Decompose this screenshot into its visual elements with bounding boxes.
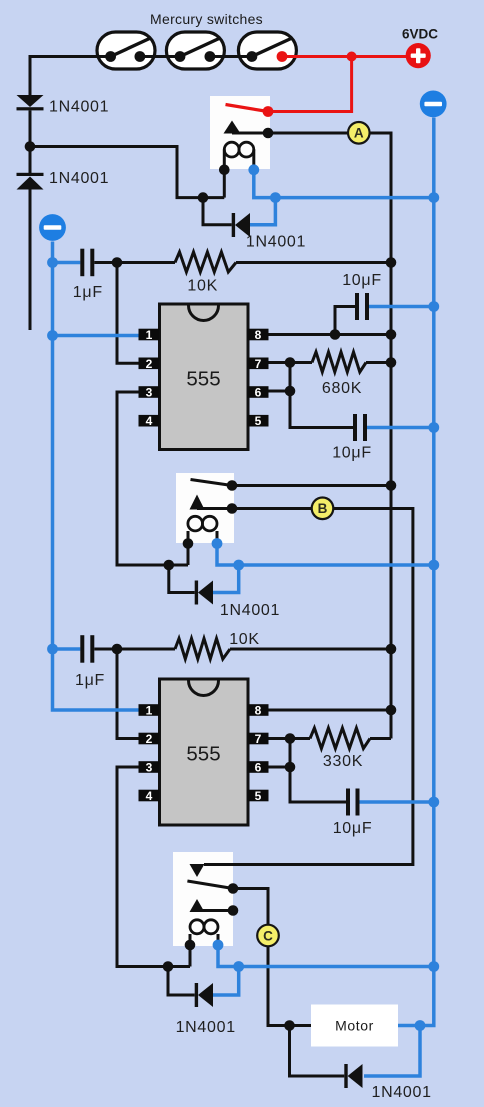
relay K1 switch lever (red) xyxy=(226,105,269,112)
svg-text:1N4001: 1N4001 xyxy=(176,1019,236,1036)
relay K2 body xyxy=(176,473,234,543)
wire: 555 U1 pin8 row xyxy=(248,333,391,336)
wire: relay K2 coil return to bus (blue) xyxy=(217,544,434,566)
svg-text:8: 8 xyxy=(255,704,262,718)
svg-text:1: 1 xyxy=(146,328,153,342)
wire: relay K2 switch contact to vertical bus xyxy=(232,484,391,487)
resistor R4 330K zigzag xyxy=(310,728,370,749)
terminal minus (top right) xyxy=(420,91,447,118)
mercury switch S3 xyxy=(235,32,299,69)
relay K3 switch lever xyxy=(187,881,233,889)
relay K3 coil xyxy=(190,920,218,934)
wire: R1 to vertical bus xyxy=(236,261,391,264)
svg-text:1μF: 1μF xyxy=(75,672,105,689)
svg-text:330K: 330K xyxy=(323,753,363,770)
svg-text:5: 5 xyxy=(255,789,262,803)
wire: left rail between D1 and D2 xyxy=(29,111,32,174)
mercury switch S2 xyxy=(163,32,227,69)
wire: branch from left rail to relay K1 coil xyxy=(30,147,224,198)
svg-text:4: 4 xyxy=(146,414,153,428)
capacitor C4 1uF xyxy=(80,635,94,663)
diode D3 1N4001 (relay K1 flyback) xyxy=(232,213,250,237)
wire: R2 to vertical bus xyxy=(366,361,391,364)
svg-text:555: 555 xyxy=(186,368,220,391)
wire: blue lead to capacitor C1 xyxy=(53,261,81,265)
svg-text:3: 3 xyxy=(146,761,153,775)
IC U2 pin 8 xyxy=(248,704,269,718)
wire: blue branch to diode D3 cathode xyxy=(250,198,275,225)
motor M1 body xyxy=(311,1005,398,1047)
wire: C1 to R1 lead xyxy=(94,261,175,264)
IC U2 pin 4 xyxy=(139,789,160,803)
resistor R3 10K zigzag xyxy=(175,639,230,660)
diode D2 1N4001 (left rail lower) xyxy=(17,173,44,190)
svg-text:3: 3 xyxy=(146,386,153,400)
wire: relay K2 coil left lead xyxy=(187,531,190,565)
junction dots black xyxy=(25,128,397,1031)
svg-text:Motor: Motor xyxy=(335,1018,374,1034)
svg-text:1N4001: 1N4001 xyxy=(49,99,109,116)
relay K1 red contact dot xyxy=(263,106,274,117)
wire: relay K1 coil left lead xyxy=(223,150,226,198)
wire: relay K2 armature through node B down to relay K3 top contact xyxy=(197,509,413,865)
svg-text:A: A xyxy=(354,126,364,141)
wire: U1 pin6 lead xyxy=(248,390,290,393)
IC U1 pin 2 xyxy=(139,357,160,371)
resistor R2 680K zigzag xyxy=(312,352,366,372)
IC U1 pin 4 xyxy=(139,414,160,428)
wire: C4 to R3 lead xyxy=(94,648,175,651)
svg-text:10μF: 10μF xyxy=(342,272,382,289)
svg-text:2: 2 xyxy=(146,357,153,371)
wire: U2 pin3 down to relay K3 coil xyxy=(117,767,190,967)
svg-text:10μF: 10μF xyxy=(332,444,372,461)
diode D1 1N4001 (left rail upper) xyxy=(17,95,44,110)
diode D6 1N4001 (motor flyback) xyxy=(344,1064,362,1088)
svg-text:680K: 680K xyxy=(322,380,362,397)
wire: top rail from left rail to switch S1 xyxy=(30,57,97,96)
wire: capacitor C2 left lead xyxy=(335,307,355,335)
IC U1 pin 1 xyxy=(139,328,160,342)
svg-text:7: 7 xyxy=(255,732,262,746)
svg-text:8: 8 xyxy=(255,328,262,342)
junction dots blue xyxy=(47,164,439,1031)
IC U2 pin 7 xyxy=(248,732,269,746)
wire: blue lead to capacitor C4 xyxy=(53,647,81,651)
svg-text:1N4001: 1N4001 xyxy=(220,602,280,619)
wire: R3 to vertical bus xyxy=(230,648,391,651)
IC U2 pin 6 xyxy=(248,761,269,775)
IC U2 pin 3 xyxy=(139,761,160,775)
wire: relay K3 coil left lead xyxy=(189,934,192,967)
IC U1 pin 8 xyxy=(248,328,269,342)
svg-text:10K: 10K xyxy=(187,278,218,295)
svg-text:7: 7 xyxy=(255,357,262,371)
wire: relay K3 armature stub xyxy=(197,909,233,912)
wire: R4 to vertical bus xyxy=(370,737,391,740)
wire: blue branch to diode D4 cathode xyxy=(212,565,239,593)
relay K1 body xyxy=(210,96,270,169)
svg-text:C: C xyxy=(263,928,273,943)
relay K3 top contact triangle (down) xyxy=(190,864,205,877)
svg-text:555: 555 xyxy=(186,743,220,766)
wire: capacitor C2 to bus (blue) xyxy=(369,305,434,309)
wire: left rail below D2 (dead end) xyxy=(29,190,32,331)
wire: U1 pin7 lead xyxy=(248,361,312,364)
wire: motor node down to diode D6 xyxy=(290,1026,345,1077)
resistor R1 10K zigzag xyxy=(175,252,236,272)
relay K2 armature contact triangle xyxy=(190,495,205,510)
capacitor C2 10uF xyxy=(355,293,369,320)
IC U2 pin 1 xyxy=(139,704,160,718)
wire: C1 junction down to U1 pin2 xyxy=(117,263,139,364)
svg-text:Mercury switches: Mercury switches xyxy=(150,11,263,27)
svg-text:10K: 10K xyxy=(229,631,260,648)
terminal minus (left) xyxy=(39,214,66,241)
wire: blue branch to diode D5 cathode xyxy=(212,967,239,996)
terminal plus 6VDC xyxy=(406,43,431,68)
relay K3 armature contact triangle xyxy=(190,899,205,912)
wire: relay K1 coil return to bus (blue) xyxy=(254,170,434,198)
IC U2 555 body xyxy=(160,679,249,825)
wire: U1 pin3 down to relay K2 coil xyxy=(117,392,188,565)
wire: relay K2 coil right lead (black part) xyxy=(216,531,219,544)
svg-text:6VDC: 6VDC xyxy=(402,27,438,42)
wire: red supply from S3 to plus terminal xyxy=(282,55,406,58)
svg-text:1μF: 1μF xyxy=(73,284,103,301)
IC U1 pin 6 xyxy=(248,386,269,400)
svg-text:10μF: 10μF xyxy=(333,820,373,837)
capacitor C1 1uF xyxy=(80,249,94,277)
capacitor C6 10uF xyxy=(346,789,360,816)
svg-text:B: B xyxy=(318,501,328,516)
wire: between S1 and S2 xyxy=(155,55,166,58)
node A xyxy=(348,122,370,144)
svg-text:6: 6 xyxy=(255,386,262,400)
IC U2 pin 2 xyxy=(139,732,160,746)
svg-text:1N4001: 1N4001 xyxy=(49,170,109,187)
wire: C4 junction down to U2 pin2 xyxy=(117,649,139,739)
junction dots red xyxy=(347,52,357,62)
wire: relay K3 switch through node C to motor xyxy=(233,889,311,1026)
wire: relay K1 coil right lead (black part) xyxy=(252,150,255,170)
capacitor C3 10uF xyxy=(353,414,367,441)
wire: blue branch to U1 pin1 xyxy=(53,334,140,338)
wire: pin7/pin6 junction down to capacitor C3 xyxy=(290,363,353,428)
diode D5 1N4001 (relay K3 flyback) xyxy=(195,983,213,1007)
diode D4 1N4001 (relay K2 flyback) xyxy=(195,581,213,605)
svg-text:2: 2 xyxy=(146,732,153,746)
wire: blue branch to diode D6 cathode xyxy=(364,1026,420,1077)
svg-text:1N4001: 1N4001 xyxy=(246,233,306,250)
node B xyxy=(312,498,334,520)
wire: capacitor C6 to bus (blue) xyxy=(360,800,434,804)
svg-text:6: 6 xyxy=(255,761,262,775)
relay K2 coil xyxy=(188,516,217,531)
svg-text:4: 4 xyxy=(146,789,153,803)
wire: relay K1 armature to right vertical bus xyxy=(232,133,391,739)
wire: red drop to relay K1 switch xyxy=(268,57,352,112)
svg-text:1: 1 xyxy=(146,704,153,718)
svg-text:5: 5 xyxy=(255,414,262,428)
wire: between S2 and S3 xyxy=(225,55,239,58)
wire: blue negative bus right side xyxy=(398,118,434,1026)
wire: U2 pin7 lead xyxy=(248,737,310,740)
IC U1 pin 5 xyxy=(248,414,269,428)
wire: relay K3 coil right lead (black part) xyxy=(217,934,220,945)
mercury switch S1 xyxy=(94,32,158,69)
wire: blue negative bus left side down to U2 pin1 xyxy=(53,242,140,711)
relay K1 coil xyxy=(224,142,254,157)
relay K2 switch lever xyxy=(191,480,233,486)
IC U2 pin 5 xyxy=(248,789,269,803)
IC U1 pin 7 xyxy=(248,357,269,371)
IC U1 pin 3 xyxy=(139,386,160,400)
IC U1 555 body xyxy=(160,304,249,450)
relay K1 armature contact triangle xyxy=(224,121,241,134)
wire: node to diode D4 anode side xyxy=(169,565,195,593)
wire: relay K3 coil return to bus (blue) xyxy=(218,945,434,967)
wire: node to diode D3 anode side xyxy=(203,198,232,225)
wire: U2 pin8 row xyxy=(248,709,391,712)
wire: node to diode D5 anode side xyxy=(168,967,195,996)
svg-text:1N4001: 1N4001 xyxy=(371,1084,431,1101)
node C xyxy=(257,925,279,947)
relay K3 body xyxy=(173,852,233,946)
wire: pin7/pin6 junction down to capacitor C6 xyxy=(290,739,346,803)
wire: U2 pin6 lead xyxy=(248,766,290,769)
wire: capacitor C3 to bus (blue) xyxy=(367,426,434,430)
